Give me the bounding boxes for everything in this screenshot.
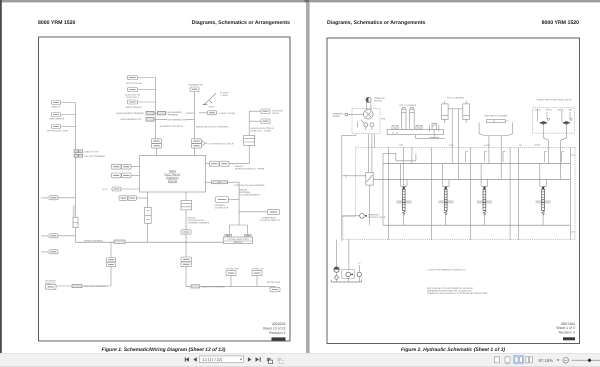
svg-text:TRM/LN HARNESS: TRM/LN HARNESS <box>84 239 103 242</box>
svg-text:IN-SEATED CHG MTLB: IN-SEATED CHG MTLB <box>160 125 183 128</box>
svg-text:SCALE: SCALE <box>41 235 49 238</box>
svg-text:97.18%: 97.18% <box>539 358 554 363</box>
svg-text:BOOT/TCM-A/B: BOOT/TCM-A/B <box>126 82 142 85</box>
svg-text:TERMINAL: TERMINAL <box>168 113 180 116</box>
svg-text:MOTOR: MOTOR <box>374 100 382 103</box>
svg-text:A/B BL: A/B BL <box>535 109 542 112</box>
svg-text:HMIT SENSOR: HMIT SENSOR <box>50 118 65 121</box>
svg-text:MAIN HARNESS TERMINAL: MAIN HARNESS TERMINAL <box>117 112 145 115</box>
svg-text:LIFT: LIFT <box>399 144 404 147</box>
svg-text:CAP LIGT TERMINAL: CAP LIGT TERMINAL <box>84 155 106 158</box>
svg-text:Sheet 13 of 13: Sheet 13 of 13 <box>263 327 286 331</box>
svg-text:KEYPAD BCM_LIGHT: KEYPAD BCM_LIGHT <box>47 130 69 133</box>
svg-text:B9500B BBGGG (HO) HARNESS: B9500B BBGGG (HO) HARNESS <box>196 126 229 129</box>
svg-text:L/H TAIL/GHT: L/H TAIL/GHT <box>226 267 240 270</box>
svg-text:STEERING LIKE HYDRAULIC SYSTEM: STEERING LIKE HYDRAULIC SYSTEM RELIEF PR… <box>427 292 488 295</box>
svg-text:Figure 2. Hydraulic Schematic: Figure 2. Hydraulic Schematic (Sheet 1 o… <box>401 347 506 353</box>
svg-text:LIMIT/LIF: LIMIT/LIF <box>51 106 61 109</box>
svg-text:C-TRIM/L BRKT/STRG: C-TRIM/L BRKT/STRG <box>227 238 249 241</box>
svg-text:SCALE: SCALE <box>41 251 49 254</box>
svg-text:A/B: A/B <box>569 109 573 112</box>
svg-text:13 (17 / 22): 13 (17 / 22) <box>203 357 224 362</box>
svg-text:POSITION SENSOR: POSITION SENSOR <box>260 219 280 222</box>
svg-text:(STOP) LGT: (STOP) LGT <box>252 267 265 270</box>
svg-text:HI-02: HI-02 <box>103 188 109 191</box>
svg-text:A/B BL: A/B BL <box>546 109 553 112</box>
svg-text:SENSOR: SENSOR <box>233 241 242 244</box>
svg-text:8000 YRM 1520: 8000 YRM 1520 <box>38 20 76 26</box>
svg-text:SCALE: SCALE <box>41 197 49 200</box>
svg-text:WHEEL: WHEEL <box>333 115 341 118</box>
svg-text:CAB/LGP, STD: CAB/LGP, STD <box>84 151 99 154</box>
svg-text:ATTACH/CONTROLS - TRIMB: ATTACH/CONTROLS - TRIMB <box>235 167 265 170</box>
svg-text:BIB HARNESS STD: BIB HARNESS STD <box>168 118 188 121</box>
svg-text:(CPR) B(0)/P(H) A/B HARNESS: (CPR) B(0)/P(H) A/B HARNESS <box>234 184 265 187</box>
svg-text:Revision 2: Revision 2 <box>269 331 285 335</box>
svg-text:Figure 1. Schematic/Wiring Dia: Figure 1. Schematic/Wiring Diagram (Shee… <box>102 347 226 353</box>
svg-text:TILT: TILT <box>449 144 454 147</box>
svg-text:VALVE: VALVE <box>272 112 279 115</box>
svg-text:RH TAIL/GHT: RH TAIL/GHT <box>267 281 281 284</box>
svg-text:(TAXI) LIGHT HARNESS: (TAXI) LIGHT HARNESS <box>201 286 225 289</box>
svg-text:Revision 3: Revision 3 <box>559 330 575 334</box>
svg-text:A4 B4: A4 B4 <box>535 144 542 147</box>
svg-text:LH/RH FORK POSITIONING VALVE: LH/RH FORK POSITIONING VALVE <box>537 99 572 102</box>
svg-text:8907484: 8907484 <box>561 322 575 326</box>
svg-text:TAXI LIGHT HARNESS: TAXI LIGHT HARNESS <box>84 285 107 288</box>
svg-text:LIFT CYLINDERS: LIFT CYLINDERS <box>399 104 417 107</box>
svg-text:Diagrams, Schematics or Arrang: Diagrams, Schematics or Arrangements <box>192 20 291 26</box>
svg-text:CLAMP LOG BIB: CLAMP LOG BIB <box>219 112 236 115</box>
svg-text:HARNESS BIB: HARNESS BIB <box>189 84 204 87</box>
svg-text:4-POSITION PCS CABLE: 4-POSITION PCS CABLE <box>209 142 234 145</box>
svg-text:HOSE (PS2 - COMB): HOSE (PS2 - COMB) <box>251 130 272 133</box>
svg-text:CONNECTOR: CONNECTOR <box>215 207 229 210</box>
svg-text:PRIORITY VALVE: PRIORITY VALVE <box>368 216 386 219</box>
svg-text:A2 B2: A2 B2 <box>484 144 491 147</box>
svg-text:COLUMN HARNESS: COLUMN HARNESS <box>240 194 261 197</box>
svg-text:TILT CYLINDERS: TILT CYLINDERS <box>447 97 465 100</box>
svg-text:(12YR WHO): (12YR WHO) <box>126 96 139 99</box>
svg-text:MX01: MX01 <box>209 106 215 109</box>
svg-text:MAST SENSOR: MAST SENSOR <box>126 106 142 109</box>
svg-text:MAIN HARNESS STD: MAIN HARNESS STD <box>121 118 143 121</box>
svg-text:8000 YRM 1520: 8000 YRM 1520 <box>542 20 580 26</box>
svg-text:C-MGR: C-MGR <box>221 94 229 97</box>
svg-text:4020202: 4020202 <box>272 322 286 326</box>
svg-text:SIDE SHIFT CYLINDER: SIDE SHIFT CYLINDER <box>484 114 508 117</box>
svg-text:ORDERED HARNESS: ORDERED HARNESS <box>188 222 210 225</box>
svg-text:TRB: TRB <box>381 118 386 121</box>
svg-text:Diagrams, Schematics or Arrang: Diagrams, Schematics or Arrangements <box>327 20 426 26</box>
svg-text:C-XXXX FOR MATERIAL HYDRAULICS: C-XXXX FOR MATERIAL HYDRAULICS <box>427 269 466 272</box>
svg-text:A/B B: A/B B <box>558 109 564 112</box>
